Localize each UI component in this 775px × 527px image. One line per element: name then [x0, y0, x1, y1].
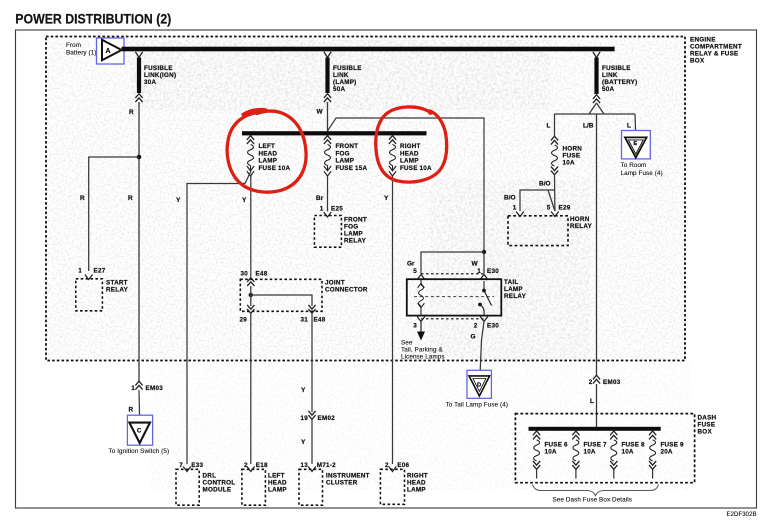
relay switch [478, 281, 491, 315]
connector EM02 pin 19 [300, 411, 335, 422]
svg-text:FUSE: FUSE [563, 153, 581, 160]
connector E06 pin 2 + right head lamp box [380, 462, 427, 504]
svg-text:E29: E29 [559, 205, 571, 212]
svg-text:R: R [128, 195, 133, 202]
svg-text:B/O: B/O [504, 195, 516, 202]
svg-text:LAMP: LAMP [400, 158, 419, 165]
svg-text:B/O: B/O [539, 181, 551, 188]
svg-text:HORN: HORN [563, 146, 583, 153]
svg-text:FUSE 7: FUSE 7 [584, 442, 608, 449]
svg-text:CONNECTOR: CONNECTOR [325, 287, 368, 294]
svg-text:FRONT: FRONT [336, 143, 359, 150]
svg-text:JOINT: JOINT [325, 280, 345, 287]
engine compartment dashed box [46, 37, 685, 361]
svg-text:From: From [66, 42, 81, 49]
svg-text:HORN: HORN [570, 216, 590, 223]
svg-text:Lamp Fuse (4): Lamp Fuse (4) [621, 170, 663, 177]
node D tail lamp fuse triangle [467, 370, 491, 398]
svg-text:10A: 10A [545, 449, 557, 456]
svg-text:LAMP: LAMP [504, 286, 523, 293]
svg-text:10A: 10A [563, 160, 576, 167]
wire split bar L / L/B / L [555, 103, 636, 114]
svg-text:5: 5 [547, 205, 551, 212]
wire B/O [554, 175, 556, 211]
fusible link IGN 30A [135, 52, 176, 102]
svg-text:2: 2 [385, 462, 389, 469]
svg-text:EM02: EM02 [318, 415, 336, 422]
red circle left tail [243, 109, 266, 114]
wire R main vertical [138, 102, 140, 381]
connector M71-2 pin 13 + instrument cluster box [299, 462, 370, 505]
svg-text:DASH: DASH [698, 415, 717, 422]
svg-text:FUSE: FUSE [698, 422, 716, 429]
svg-text:COMPARTMENT: COMPARTMENT [690, 44, 742, 51]
svg-text:E30: E30 [487, 268, 499, 275]
svg-text:LAMP: LAMP [407, 487, 426, 494]
svg-text:POWER DISTRIBUTION (2): POWER DISTRIBUTION (2) [15, 10, 171, 26]
svg-text:LAMP: LAMP [259, 158, 278, 165]
svg-text:FUSIBLE: FUSIBLE [333, 65, 362, 72]
wire G [482, 322, 485, 341]
svg-text:RIGHT: RIGHT [400, 143, 421, 150]
svg-text:L: L [547, 123, 551, 130]
svg-text:To Ignition Switch (5): To Ignition Switch (5) [109, 448, 170, 455]
wire R branch to start relay [89, 157, 139, 271]
wire L into dash fuse box [596, 384, 598, 428]
connector EM03 pin 2 [589, 375, 621, 386]
svg-text:Br: Br [316, 195, 324, 202]
svg-text:EM03: EM03 [603, 379, 621, 386]
fuse 6 10A [533, 431, 568, 479]
dash fuse box [515, 414, 716, 483]
wire R to ignition [138, 390, 141, 423]
svg-text:5: 5 [413, 268, 417, 275]
svg-text:E33: E33 [191, 462, 203, 469]
svg-text:Y: Y [176, 197, 181, 204]
wire Y from right fuse [392, 176, 394, 464]
svg-text:W: W [472, 261, 479, 268]
node A (from battery) blue box [97, 38, 125, 64]
brace see dash fuse box details [533, 485, 659, 504]
svg-text:To Room: To Room [621, 162, 647, 169]
svg-text:BOX: BOX [690, 58, 705, 65]
svg-text:E25: E25 [331, 206, 343, 213]
relay coil [418, 280, 425, 316]
fusible link LAMP 50A [324, 52, 362, 102]
svg-text:30A: 30A [144, 79, 157, 86]
wire Y from left fuse [250, 176, 252, 277]
fusible link BATTERY 50A [593, 52, 638, 103]
svg-text:R: R [129, 109, 134, 116]
svg-text:LEFT: LEFT [268, 473, 285, 480]
svg-text:1: 1 [78, 268, 82, 275]
svg-text:RIGHT: RIGHT [407, 473, 428, 480]
svg-text:R: R [80, 195, 85, 202]
svg-text:HEAD: HEAD [407, 480, 426, 487]
svg-text:FUSE 8: FUSE 8 [622, 442, 646, 449]
svg-text:3: 3 [413, 323, 417, 330]
svg-text:L: L [590, 398, 594, 405]
svg-text:2: 2 [589, 379, 593, 386]
svg-text:Gr: Gr [407, 261, 415, 268]
svg-text:1: 1 [131, 385, 135, 392]
svg-text:E2DF302B: E2DF302B [727, 512, 757, 518]
joint connector E48 [239, 271, 367, 324]
svg-text:L: L [627, 123, 631, 130]
svg-text:CLUSTER: CLUSTER [326, 480, 358, 487]
svg-text:FUSE 9: FUSE 9 [661, 442, 685, 449]
svg-text:D: D [477, 382, 481, 388]
svg-text:LINK: LINK [333, 72, 349, 79]
connector E33 pin 7 + DRL box [176, 462, 235, 505]
wire Y branch to DRL [187, 171, 251, 464]
arrow to tail parking lamps [401, 322, 445, 361]
wire L to room lamp [634, 114, 637, 137]
svg-text:13: 13 [300, 462, 308, 469]
svg-text:M71-2: M71-2 [317, 462, 336, 469]
svg-text:See: See [401, 339, 413, 346]
svg-text:10A: 10A [622, 449, 634, 456]
svg-text:R: R [129, 407, 134, 414]
connector E29 pins 1,5 [513, 205, 571, 217]
svg-text:(BATTERY): (BATTERY) [602, 79, 637, 86]
node E room lamp triangle [622, 131, 651, 159]
right head lamp fuse 10A [389, 136, 432, 176]
svg-text:MODULE: MODULE [203, 487, 232, 494]
svg-text:Y: Y [242, 197, 247, 204]
svg-text:RELAY: RELAY [106, 287, 129, 294]
svg-text:Battery (1): Battery (1) [66, 50, 97, 57]
svg-text:LAMP: LAMP [344, 231, 363, 238]
svg-text:TAIL: TAIL [504, 279, 519, 286]
svg-text:E18: E18 [256, 462, 268, 469]
svg-text:30: 30 [240, 271, 248, 278]
svg-text:A: A [106, 48, 111, 55]
svg-text:E06: E06 [397, 462, 409, 469]
svg-text:10A: 10A [584, 449, 596, 456]
svg-text:1: 1 [513, 205, 517, 212]
svg-text:EM03: EM03 [146, 385, 164, 392]
svg-text:E30: E30 [487, 323, 499, 330]
svg-text:G: G [471, 334, 476, 341]
fuse 7 10A [572, 431, 607, 479]
wire Y to instrument cluster [311, 314, 313, 413]
svg-text:License Lamps: License Lamps [401, 353, 445, 360]
horn relay box [508, 216, 593, 246]
front fog lamp fuse 15A [324, 136, 368, 176]
svg-text:E: E [633, 141, 637, 147]
svg-text:FOG: FOG [336, 150, 350, 157]
node junction dot [137, 155, 142, 160]
svg-text:20A: 20A [661, 449, 673, 456]
svg-text:E48: E48 [256, 271, 268, 278]
svg-text:Y: Y [301, 439, 306, 446]
svg-text:50A: 50A [602, 86, 615, 93]
svg-text:E27: E27 [94, 268, 106, 275]
svg-text:FOG: FOG [344, 224, 358, 231]
wire W branch to tail lamp relay [328, 118, 485, 252]
svg-text:FUSIBLE: FUSIBLE [144, 65, 173, 72]
svg-text:DRL: DRL [203, 473, 217, 480]
svg-text:INSTRUMENT: INSTRUMENT [326, 473, 370, 480]
tail lamp relay assembly [407, 250, 527, 316]
headlamp bus wire [242, 131, 427, 135]
connector E25 pin 1 [320, 206, 343, 218]
svg-text:Y: Y [384, 195, 389, 202]
horn fuse 10A [551, 114, 582, 175]
svg-text:RELAY: RELAY [504, 293, 527, 300]
svg-text:START: START [106, 280, 128, 287]
wire Y to left head lamp [250, 314, 252, 465]
svg-text:C: C [137, 427, 142, 434]
svg-text:LAMP: LAMP [268, 487, 287, 494]
svg-text:FUSIBLE: FUSIBLE [602, 65, 631, 72]
svg-text:E48: E48 [314, 317, 326, 324]
svg-text:1: 1 [320, 206, 324, 213]
svg-text:FUSE 10A: FUSE 10A [400, 165, 432, 172]
svg-text:W: W [317, 109, 324, 116]
wire B/O branch to pin1 [520, 190, 555, 211]
svg-text:To Tail Lamp Fuse (4): To Tail Lamp Fuse (4) [446, 402, 509, 409]
fuse 8 10A [610, 431, 645, 479]
svg-text:LEFT: LEFT [259, 143, 276, 150]
svg-text:(LAMP): (LAMP) [333, 79, 357, 86]
svg-text:RELAY: RELAY [344, 238, 367, 245]
wire W [327, 102, 329, 132]
node C ignition switch triangle [127, 415, 152, 445]
connector E27 pin 1 [78, 268, 105, 280]
svg-text:7: 7 [179, 462, 183, 469]
svg-text:See Dash Fuse Box Details: See Dash Fuse Box Details [553, 497, 633, 504]
svg-text:29: 29 [239, 317, 247, 324]
fuse 9 20A [649, 431, 684, 479]
red highlight circle right [376, 107, 447, 182]
wire Br from fog fuse [327, 176, 329, 212]
svg-text:LINK(IGN): LINK(IGN) [144, 72, 176, 79]
svg-text:FUSE 15A: FUSE 15A [336, 165, 368, 172]
svg-text:BOX: BOX [698, 429, 713, 436]
svg-text:HEAD: HEAD [268, 480, 287, 487]
svg-text:HEAD: HEAD [259, 150, 278, 157]
svg-text:ENGINE: ENGINE [690, 37, 716, 44]
relay bottom terminals [413, 317, 499, 330]
scan speckle background [46, 36, 690, 490]
wire L/B main down [596, 114, 598, 375]
svg-text:LAMP: LAMP [336, 158, 355, 165]
svg-text:RELAY & FUSE: RELAY & FUSE [690, 51, 739, 58]
red circle right blob [428, 110, 433, 115]
connector E18 pin 2 + left head lamp box [242, 462, 287, 505]
svg-text:19: 19 [300, 415, 308, 422]
svg-text:RELAY: RELAY [570, 223, 593, 230]
svg-text:FUSE 6: FUSE 6 [545, 442, 569, 449]
svg-text:50A: 50A [333, 86, 346, 93]
red highlight circle left [227, 111, 306, 192]
svg-text:31: 31 [300, 317, 308, 324]
front fog lamp relay box [314, 216, 367, 248]
svg-text:Y: Y [301, 387, 306, 394]
svg-text:CONTROL: CONTROL [203, 480, 236, 487]
svg-text:LINK: LINK [602, 72, 618, 79]
main bus wire [122, 47, 615, 52]
svg-text:Tail, Parking &: Tail, Parking & [401, 346, 443, 353]
svg-text:HEAD: HEAD [400, 150, 419, 157]
svg-text:L/B: L/B [583, 123, 594, 130]
connector EM03 pin 1 [131, 381, 163, 392]
start relay box [76, 279, 129, 311]
svg-text:FUSE 10A: FUSE 10A [259, 165, 291, 172]
svg-text:2: 2 [474, 323, 478, 330]
left head lamp fuse 10A [247, 136, 291, 176]
svg-text:FRONT: FRONT [344, 217, 367, 224]
